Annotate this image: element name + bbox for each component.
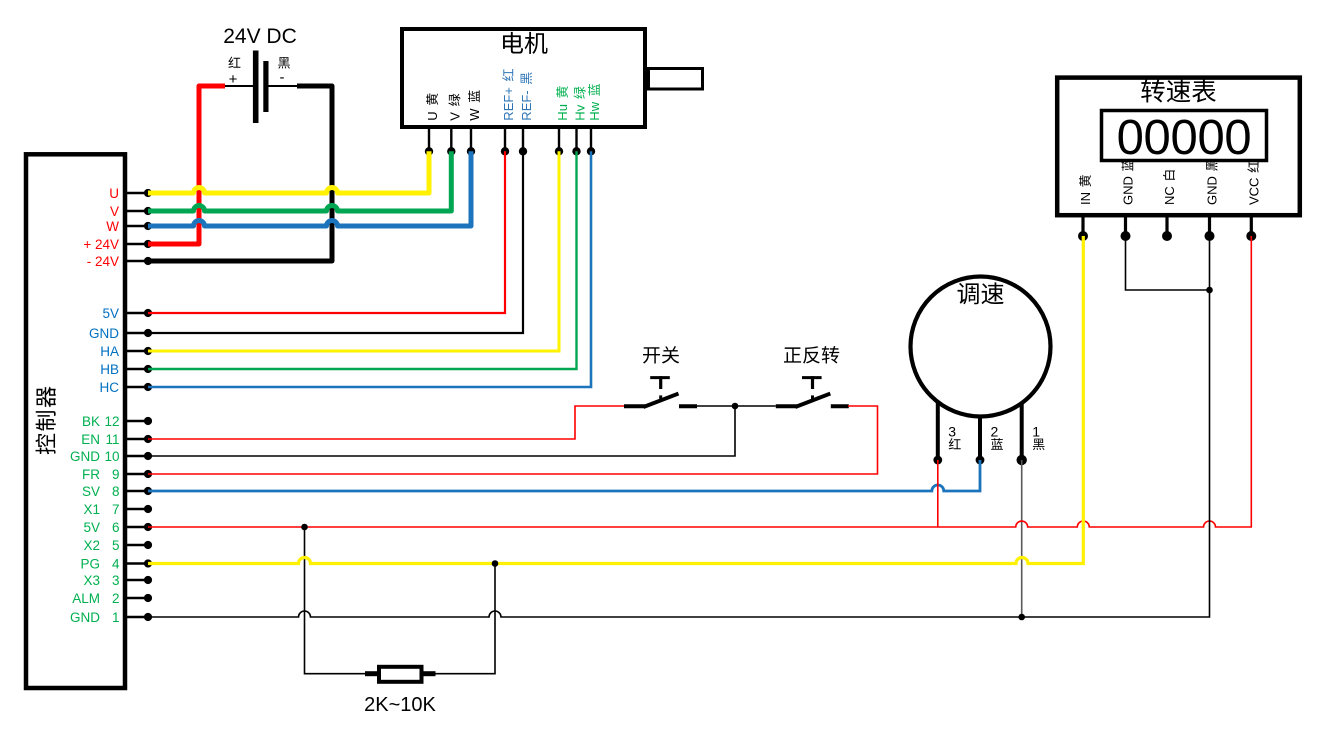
controller pin GND (stub, dot, label) — [89, 326, 152, 341]
svg-text:EN: EN — [81, 432, 100, 447]
controller pin HB (stub, dot, label) — [100, 362, 152, 377]
controller pin HA (stub, dot, label) — [100, 344, 152, 359]
motor pin Hv 绿 (stub, dot, rotated label) — [572, 87, 587, 156]
controller pin - 24V (stub, dot, label) — [87, 254, 152, 269]
svg-text:12: 12 — [104, 414, 119, 429]
svg-text:2: 2 — [991, 424, 999, 440]
battery plus sign — [229, 71, 238, 88]
controller pin X2 5 (stub, dot, label) — [83, 538, 152, 553]
motor title 电机 — [503, 32, 547, 54]
svg-text:8: 8 — [112, 484, 120, 499]
node C junction dot — [732, 403, 739, 410]
motor pin Hw 蓝 (stub, dot, rotated label) — [587, 84, 602, 156]
svg-text:U: U — [109, 186, 119, 201]
svg-text:24V DC: 24V DC — [223, 25, 297, 48]
wire resistor left lead from node A — [305, 527, 366, 674]
controller pin 5V (stub, dot, label) — [102, 306, 152, 321]
svg-text:1: 1 — [1032, 424, 1040, 440]
svg-text:+ 24V: + 24V — [83, 237, 119, 252]
motor pin W 蓝 (stub, dot, rotated label) — [467, 90, 482, 155]
svg-text:X2: X2 — [83, 538, 100, 553]
svg-text:GND: GND — [1121, 176, 1136, 205]
tachometer pin GND 黑 (stub, dot, rotated label) — [1205, 159, 1220, 241]
wire V (green thick) controller V to motor V with jumpovers — [148, 151, 451, 211]
switch S2 正反转 label — [784, 346, 839, 364]
svg-text:W: W — [106, 219, 119, 234]
resistor R1 left stub — [365, 671, 379, 676]
controller pin + 24V (stub, dot, label) — [83, 237, 152, 252]
controller pin X1 7 (stub, dot, label) — [83, 502, 152, 517]
svg-text:W: W — [467, 108, 482, 121]
svg-text:3: 3 — [112, 573, 120, 588]
tachometer box 转速表 — [1057, 78, 1300, 216]
svg-text:3: 3 — [948, 424, 956, 440]
wire battery positive lead (thin) — [225, 85, 253, 87]
switch S1 开关 (lead, blade, contact, actuator) — [624, 376, 697, 407]
battery label 黑 (black lead) — [278, 57, 290, 69]
motor pin Hu 黄 (stub, dot, rotated label) — [555, 86, 570, 155]
svg-text:2K~10K: 2K~10K — [364, 694, 436, 716]
potentiometer pin 3 红 (stub, dot, labels) — [933, 401, 960, 464]
svg-text:X1: X1 — [83, 502, 100, 517]
battery minus sign — [280, 69, 285, 86]
controller title 控制器 (rotated) — [35, 387, 55, 455]
controller pin SV 8 (stub, dot, label) — [82, 484, 152, 499]
svg-text:X3: X3 — [83, 573, 100, 588]
potentiometer pin 2 蓝 (stub, dot, labels) — [976, 415, 1003, 464]
tachometer pin GND 蓝 (stub, dot, rotated label) — [1121, 159, 1136, 241]
svg-text:NC: NC — [1162, 186, 1177, 205]
svg-text:VCC: VCC — [1246, 178, 1261, 205]
svg-text:6: 6 — [112, 520, 120, 535]
svg-text:BK: BK — [82, 414, 100, 429]
wire GND (black) controller GND to motor REF- — [148, 151, 523, 333]
node E junction dot tachometer GND tie — [1206, 287, 1213, 294]
switch S1 开关 label — [643, 346, 679, 363]
controller pin U (stub, dot, label) — [109, 186, 152, 201]
wire U (yellow thick) controller U to motor U with jumpovers — [148, 151, 429, 193]
motor M1 box 电机 — [402, 29, 645, 127]
controller pin GND 1 (stub, dot, label) — [70, 610, 152, 625]
svg-text:GND: GND — [70, 610, 100, 625]
svg-text:-: - — [280, 69, 285, 86]
svg-text:HB: HB — [100, 362, 119, 377]
svg-text:10: 10 — [104, 449, 119, 464]
motor pin V 绿 (stub, dot, rotated label) — [447, 94, 462, 156]
wire FR 9 (red) controller to switch S2 output — [148, 406, 878, 474]
node A junction dot on 5V 6 net — [301, 524, 308, 531]
controller pin PG 4 (stub, dot, label) — [80, 556, 152, 571]
tachometer display bezel — [1102, 111, 1267, 161]
controller pin 5V 6 (stub, dot, label) — [83, 520, 152, 535]
controller pin FR 9 (stub, dot, label) — [82, 467, 152, 482]
wire 5V 6 net (red) controller to tachometer VCC with jumpovers — [148, 236, 1251, 527]
wire potentiometer pin 3 (red) down to 5V 6 net — [937, 460, 939, 527]
svg-text:REF+: REF+ — [501, 87, 516, 121]
resistor R1 body — [379, 667, 422, 682]
svg-text:Hu: Hu — [555, 104, 570, 121]
tachometer display digits 00000 — [1117, 111, 1252, 165]
wire resistor right lead from node B — [436, 564, 496, 674]
controller pin HC (stub, dot, label) — [100, 380, 153, 395]
svg-text:5V: 5V — [102, 306, 119, 321]
wire switch S1 to node C to switch S2 (black) — [697, 405, 776, 407]
svg-text:1: 1 — [112, 610, 120, 625]
svg-text:4: 4 — [112, 556, 120, 571]
resistor R1 value 2K~10K — [364, 694, 436, 716]
svg-text:7: 7 — [112, 502, 120, 517]
wire potentiometer pin 1 (gray) down to GND 1 net — [1021, 460, 1023, 617]
svg-text:U: U — [425, 111, 440, 120]
controller U1 box 控制器 — [26, 154, 125, 688]
motor pin REF- 黑 (stub, dot, rotated label) — [519, 72, 534, 155]
motor shaft — [649, 69, 703, 90]
tachometer pin IN 黄 (stub, dot, rotated label) — [1078, 175, 1093, 241]
svg-text:5V: 5V — [83, 520, 100, 535]
controller pin ALM 2 (stub, dot, label) — [72, 591, 152, 606]
wire W (blue thick) controller W to motor W with jumpovers — [148, 151, 471, 226]
svg-text:Hv: Hv — [573, 104, 588, 120]
battery 24V DC label — [223, 25, 297, 48]
svg-text:- 24V: - 24V — [87, 254, 119, 269]
svg-text:GND: GND — [70, 449, 100, 464]
battery label 红 (red lead) — [228, 57, 240, 68]
wire +24V (red thick) controller to battery + — [148, 86, 225, 244]
tachometer title 转速表 — [1141, 79, 1216, 102]
wire HC (blue) controller HC to motor Hw — [148, 151, 591, 387]
svg-text:GND: GND — [89, 326, 119, 341]
motor pin U 黄 (stub, dot, rotated label) — [425, 93, 440, 155]
wire GND 10 (black) controller to node C — [148, 406, 735, 456]
svg-text:IN: IN — [1078, 192, 1093, 205]
wire HB (green) controller HB to motor Hv — [148, 151, 577, 369]
node D junction dot on GND 1 net — [1018, 614, 1025, 621]
svg-text:SV: SV — [82, 484, 100, 499]
controller pin W (stub, dot, label) — [106, 219, 152, 234]
wire battery negative lead (thin) — [269, 85, 298, 87]
svg-text:V: V — [110, 204, 119, 219]
potentiometer pin 1 黑 (stub, dot, labels) — [1017, 402, 1045, 465]
node B junction dot on PG 4 net — [492, 560, 499, 567]
controller pin BK 12 (stub, dot, label) — [82, 414, 152, 429]
wire EN 11 (red) controller to switch S1 — [148, 406, 624, 439]
svg-text:GND: GND — [1205, 176, 1220, 205]
wire 5V (red) controller 5V to motor REF+ — [148, 151, 505, 313]
wire PG 4 net (yellow) controller to tachometer IN with jumpovers — [148, 236, 1083, 564]
switch S2 正反转 (lead, blade, contact, actuator) — [776, 376, 849, 407]
wire -24V (black thick) controller to battery - — [148, 86, 332, 261]
svg-text:HC: HC — [100, 380, 120, 395]
tachometer pin VCC 红 (stub, dot, rotated label) — [1246, 160, 1261, 241]
svg-text:ALM: ALM — [72, 591, 100, 606]
battery B1 negative plate — [263, 61, 268, 112]
svg-text:2: 2 — [112, 591, 120, 606]
wire HA (yellow) controller HA to motor Hu — [148, 151, 559, 351]
svg-text:00000: 00000 — [1117, 111, 1252, 165]
wire tachometer GND 蓝 to GND 黑 (black) — [1126, 236, 1210, 290]
svg-text:FR: FR — [82, 467, 100, 482]
svg-text:REF-: REF- — [519, 90, 534, 120]
svg-text:HA: HA — [100, 344, 119, 359]
tachometer pin NC 白 (stub, dot, rotated label) — [1162, 170, 1177, 241]
motor pin REF+ 红 (stub, dot, rotated label) — [501, 69, 516, 155]
potentiometer RP1 body 调速 (circle) — [911, 277, 1051, 417]
controller pin EN 11 (stub, dot, label) — [81, 432, 152, 447]
potentiometer title 调速 — [958, 282, 1004, 304]
svg-text:Hw: Hw — [587, 101, 602, 120]
svg-text:9: 9 — [112, 467, 120, 482]
svg-text:5: 5 — [112, 538, 120, 553]
wire SV 8 (blue) controller to potentiometer pin 2 with jumpover — [148, 460, 980, 491]
controller pin GND 10 (stub, dot, label) — [70, 449, 152, 464]
svg-text:PG: PG — [80, 556, 100, 571]
resistor R1 right stub — [422, 671, 436, 676]
svg-text:V: V — [447, 112, 462, 121]
battery B1 positive plate — [253, 51, 259, 124]
wire GND 1 net (black) controller to tachometer GND 黑 with jumpovers — [148, 236, 1210, 617]
controller pin X3 3 (stub, dot, label) — [83, 573, 152, 588]
controller pin V (stub, dot, label) — [110, 204, 152, 219]
svg-text:11: 11 — [105, 432, 119, 447]
